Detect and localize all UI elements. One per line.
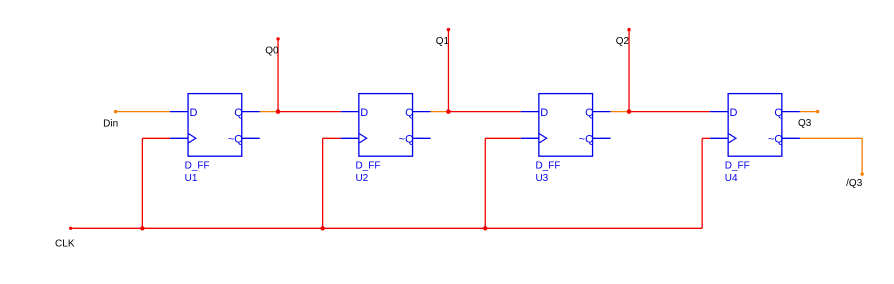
U4 reference designator U4 — [725, 173, 738, 184]
wire net /Q3 horizontal from U4.~Q (orange) — [800, 137, 862, 139]
node Q3 terminal dot — [816, 110, 819, 113]
wire CLK branch to U2 vertical (red) — [322, 138, 324, 228]
U3 value label D_FF — [535, 161, 560, 172]
node Din terminal dot — [114, 110, 117, 113]
wire CLK branch to U4 horizontal (red) — [702, 137, 710, 139]
node Q2 terminal dot — [627, 28, 630, 31]
svg-text:Q: Q — [774, 107, 783, 119]
wire net Q3 from U4.Q (orange) — [800, 111, 818, 113]
wire CLK branch to U3 horizontal (red) — [485, 137, 521, 139]
U4 pin CLK stub — [710, 137, 728, 139]
svg-text:~Q: ~Q — [399, 133, 414, 145]
U3 clock edge-trigger wedge — [539, 134, 546, 143]
U2 pin label Q — [405, 107, 414, 119]
svg-text:CLK: CLK — [55, 239, 75, 250]
node Q1 terminal dot — [447, 28, 450, 31]
junction CLK/U1 — [140, 226, 144, 230]
wire net /Q3 vertical drop (orange) — [861, 138, 863, 174]
junction Q1 — [446, 109, 451, 114]
label Q1 — [436, 36, 450, 47]
svg-text:U3: U3 — [535, 173, 548, 184]
label Q2 — [616, 36, 630, 47]
wire net Q2 vertical riser (red) — [628, 30, 630, 112]
svg-text:Q: Q — [585, 107, 594, 119]
U2 reference designator U2 — [355, 173, 368, 184]
U3 reference designator U3 — [535, 173, 548, 184]
label Din — [103, 119, 118, 130]
U4 pin ~Q stub — [782, 137, 800, 139]
D flip-flop U1 body — [188, 94, 242, 157]
wire CLK branch to U1 vertical (red) — [141, 138, 143, 228]
U4 clock edge-trigger wedge — [729, 134, 736, 143]
svg-text:Q2: Q2 — [616, 36, 630, 47]
U4 pin D stub — [710, 111, 728, 113]
wire CLK branch to U1 horizontal (red) — [142, 137, 170, 139]
wire net Q1 junction to U3.D (red) — [448, 111, 520, 113]
U2 pin CLK stub — [341, 137, 359, 139]
D flip-flop U2 body — [359, 94, 413, 157]
svg-text:D_FF: D_FF — [725, 161, 750, 172]
svg-text:U1: U1 — [185, 173, 198, 184]
wire net Q1 vertical riser (red) — [447, 30, 449, 112]
node CLK terminal dot — [69, 227, 72, 230]
junction CLK/U2 — [320, 226, 324, 230]
label /Q3 — [846, 178, 863, 189]
U2 value label D_FF — [355, 161, 380, 172]
svg-text:Q: Q — [405, 107, 414, 119]
svg-text:Din: Din — [103, 119, 118, 130]
svg-text:D_FF: D_FF — [355, 161, 380, 172]
U1 pin Q stub — [242, 111, 260, 113]
wire net Q0 segment U1.Q to junction (orange) — [260, 111, 278, 113]
svg-text:Q0: Q0 — [265, 45, 279, 56]
svg-text:/Q3: /Q3 — [846, 178, 863, 189]
node Q0 terminal dot — [276, 37, 279, 40]
junction Q0 — [276, 109, 281, 114]
U4 pin label ~Q — [768, 133, 783, 145]
D flip-flop U3 body — [539, 94, 593, 157]
U1 reference designator U1 — [185, 173, 198, 184]
label Q0 — [265, 45, 279, 56]
U1 pin CLK stub — [170, 137, 188, 139]
svg-text:Q: Q — [234, 107, 243, 119]
U1 clock edge-trigger wedge — [189, 134, 196, 143]
junction Q2 — [627, 109, 632, 114]
wire CLK branch to U4 vertical (red) — [701, 138, 703, 228]
U3 pin D stub — [521, 111, 539, 113]
U4 pin label D — [730, 107, 738, 119]
wire net Q0 junction to U2.D (red) — [278, 111, 341, 113]
U2 pin ~Q stub — [413, 137, 431, 139]
U1 pin ~Q stub — [242, 137, 260, 139]
label CLK — [55, 239, 75, 250]
label Q3 — [798, 118, 812, 129]
svg-text:U4: U4 — [725, 173, 738, 184]
wire net Q2 segment U3.Q to junction (orange) — [611, 111, 630, 113]
U1 value label D_FF — [185, 161, 210, 172]
U1 pin label ~Q — [228, 133, 243, 145]
U4 pin Q stub — [782, 111, 800, 113]
U3 pin label D — [540, 107, 548, 119]
svg-text:D_FF: D_FF — [185, 161, 210, 172]
wire Din (orange) to U1.D — [116, 111, 171, 113]
junction CLK/U3 — [483, 226, 487, 230]
wire net Q2 junction to U4.D (red) — [629, 111, 710, 113]
wire CLK bus horizontal (red) — [71, 227, 703, 229]
U2 clock edge-trigger wedge — [359, 134, 366, 143]
svg-text:D: D — [189, 107, 197, 119]
U3 pin label ~Q — [579, 133, 594, 145]
svg-text:~Q: ~Q — [768, 133, 783, 145]
U1 pin label D — [189, 107, 197, 119]
U2 pin Q stub — [413, 111, 431, 113]
svg-text:D: D — [540, 107, 548, 119]
U2 pin D stub — [341, 111, 359, 113]
wire CLK branch to U3 vertical (red) — [484, 138, 486, 228]
U3 pin ~Q stub — [593, 137, 611, 139]
U2 pin label ~Q — [399, 133, 414, 145]
svg-text:~Q: ~Q — [579, 133, 594, 145]
U3 pin CLK stub — [521, 137, 539, 139]
wire net Q0 vertical riser (red) — [277, 39, 279, 112]
U1 pin D stub — [170, 111, 188, 113]
svg-text:D: D — [360, 107, 368, 119]
wire net Q1 segment U2.Q to junction (orange) — [431, 111, 449, 113]
U4 pin label Q — [774, 107, 783, 119]
svg-text:D_FF: D_FF — [535, 161, 560, 172]
svg-text:D: D — [730, 107, 738, 119]
U2 pin label D — [360, 107, 368, 119]
svg-text:Q1: Q1 — [436, 36, 450, 47]
wire CLK branch to U2 horizontal (red) — [323, 137, 341, 139]
U4 value label D_FF — [725, 161, 750, 172]
node /Q3 terminal dot — [860, 172, 863, 175]
U1 pin label Q — [234, 107, 243, 119]
svg-text:U2: U2 — [355, 173, 368, 184]
U3 pin label Q — [585, 107, 594, 119]
svg-text:~Q: ~Q — [228, 133, 243, 145]
D flip-flop U4 body — [728, 94, 782, 157]
svg-text:Q3: Q3 — [798, 118, 812, 129]
U3 pin Q stub — [593, 111, 611, 113]
